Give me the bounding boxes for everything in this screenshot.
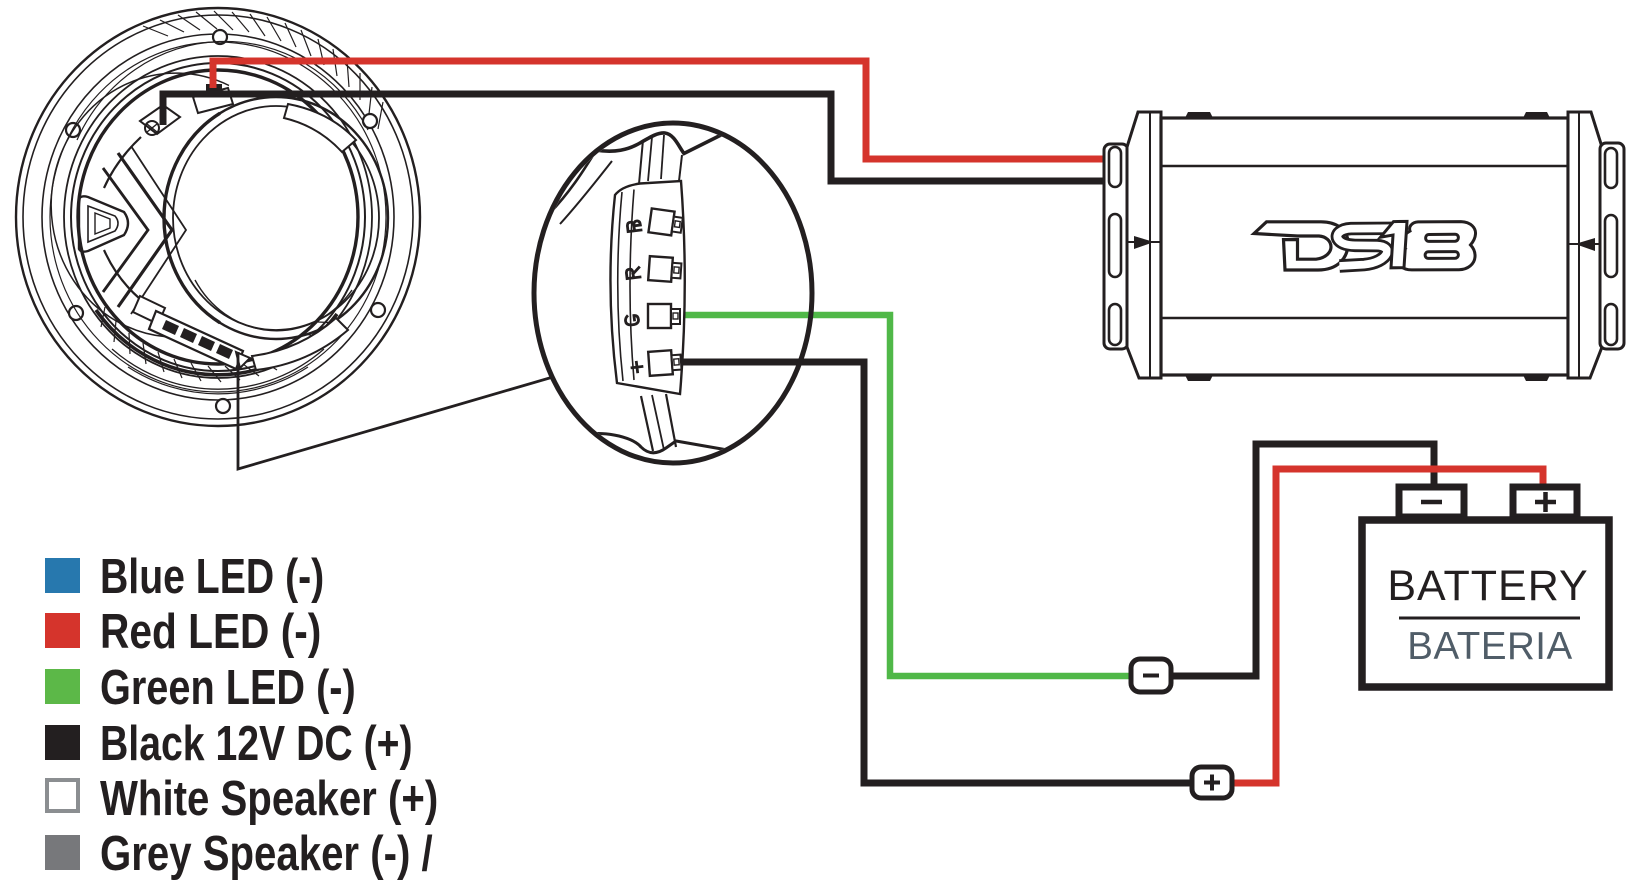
magnifier ellipse <box>534 123 812 463</box>
surround ring outer <box>50 42 386 392</box>
lug plus <box>648 350 682 376</box>
rim texture arc bottom inner <box>128 367 308 394</box>
bezel ring outer <box>64 56 372 378</box>
horn middle <box>88 206 118 242</box>
amp right flange slot 2 <box>1605 215 1617 277</box>
magnifier group <box>534 123 812 463</box>
battery plus sign <box>1535 492 1556 512</box>
basket rib upper left <box>104 137 141 188</box>
amp left flange slot 3 <box>1109 304 1121 345</box>
svg-text:Grey Speaker (-) /: Grey Speaker (-) / <box>100 826 433 881</box>
battery plus terminal <box>1513 487 1577 517</box>
lug B <box>648 208 683 236</box>
amp right cap inner line <box>1578 112 1580 378</box>
strip body <box>610 181 684 394</box>
battery minus sign <box>1421 500 1442 505</box>
cone inner shadow arc <box>195 280 352 331</box>
legend swatch green <box>45 669 80 704</box>
amp right flange slot 3 <box>1605 304 1617 345</box>
label G <box>625 315 639 326</box>
lug R <box>648 256 682 282</box>
amp bottom tab right <box>1523 375 1550 381</box>
screw hole upper right <box>363 114 377 128</box>
logo letter S light <box>1337 228 1392 266</box>
wire black from minus connector to battery minus <box>1168 444 1434 676</box>
amplifier <box>1104 112 1624 381</box>
amp top tab right <box>1523 112 1550 118</box>
screw hole top <box>213 30 227 44</box>
wire red speaker to amplifier <box>213 61 1104 159</box>
ribbon neck line 3 <box>661 135 664 179</box>
amp body <box>1161 118 1568 375</box>
basket chevron outer <box>118 153 172 307</box>
rim texture arc bottom outer <box>112 349 324 389</box>
amp left flange slot 1 <box>1109 147 1121 187</box>
amp left cap inner line <box>1149 112 1151 378</box>
strip side line left <box>618 192 623 381</box>
amp right flange slot 1 <box>1605 148 1617 188</box>
amp top tab left <box>1185 112 1213 118</box>
cone left rim thick arc <box>164 113 220 323</box>
DS18 logo <box>1254 221 1476 270</box>
battery minus terminal <box>1399 487 1464 517</box>
surround dark arc bottom <box>96 310 337 375</box>
amp right cap arrow <box>1575 238 1595 251</box>
speaker terminal tab 3 <box>198 336 215 351</box>
svg-text:BATTERY: BATTERY <box>1387 562 1588 610</box>
surround ridge arc top <box>77 41 368 140</box>
rim hatch ticks <box>143 11 383 129</box>
legend swatch grey <box>45 835 80 870</box>
ribbon tail bottom mid line <box>652 395 664 450</box>
terminal bracket left <box>133 296 165 324</box>
svg-text:White Speaker (+): White Speaker (+) <box>100 771 438 826</box>
bezel ring dark <box>78 70 358 364</box>
amp left cap arrow <box>1134 236 1154 249</box>
horn inner <box>95 213 110 234</box>
legend swatch black <box>45 725 80 760</box>
ribbon neck line 4 <box>679 155 682 181</box>
battery divider line <box>1399 617 1580 620</box>
cone opening circle outer <box>164 97 388 339</box>
ribbon tail bottom right line <box>666 394 676 447</box>
amp body top panel line <box>1161 165 1568 167</box>
legend swatch red <box>45 613 80 648</box>
amp left flange slot 2 <box>1109 214 1121 277</box>
logo letter S dark <box>1337 228 1392 266</box>
speaker outer rim ring <box>16 8 420 426</box>
inline plus connector <box>1192 767 1232 798</box>
speaker terminal tab 2 <box>180 328 197 343</box>
ribbon tail bottom left line <box>641 396 653 451</box>
clamp screw <box>145 121 159 135</box>
logo letter 8 <box>1397 222 1475 270</box>
amp right end cap <box>1568 112 1602 378</box>
screw hole lower left <box>69 306 83 320</box>
logo letter D <box>1254 222 1348 270</box>
screw hole upper left <box>66 123 80 137</box>
label plus <box>631 362 642 373</box>
speaker flange ring <box>42 34 394 400</box>
terminal strip on speaker <box>149 311 243 369</box>
screw hole bottom <box>216 399 230 413</box>
wire black 12V from plus terminal to plus connector <box>672 362 1194 783</box>
wire red from plus connector to battery plus <box>1231 469 1543 783</box>
bracket small top <box>193 88 233 113</box>
amp bottom tab left <box>1185 375 1213 381</box>
ribbon neck line 2 <box>648 137 652 181</box>
battery <box>1362 487 1609 687</box>
amp left cap seam <box>1127 241 1161 243</box>
wing shape top right <box>284 104 356 152</box>
amp right flange <box>1600 143 1624 349</box>
wire green LED from G terminal to minus connector <box>665 315 1131 676</box>
cone opening circle inner <box>173 106 379 330</box>
svg-text:Green LED (-): Green LED (-) <box>100 661 356 715</box>
speaker terminal tab 1 <box>162 320 179 335</box>
ribbon band upper left <box>549 149 597 214</box>
speaker line art <box>16 8 420 426</box>
lug G <box>648 304 680 328</box>
amp left end cap <box>1127 112 1161 378</box>
amp left flange <box>1104 144 1128 349</box>
logo letter 1 <box>1381 221 1408 267</box>
speaker terminal tab 4 <box>216 344 233 359</box>
ribbon tail bottom wave <box>580 434 739 453</box>
basket rib lower left <box>104 250 140 299</box>
amp body bottom panel line <box>1161 317 1568 319</box>
basket chevron inner <box>103 168 148 292</box>
svg-text:Blue LED (-): Blue LED (-) <box>100 550 324 604</box>
strip pointer tip <box>236 352 250 368</box>
svg-text:Red LED (-): Red LED (-) <box>100 603 321 658</box>
surround hatch ticks bottom <box>101 307 339 382</box>
ribbon band upper left inner <box>560 161 612 224</box>
callout line from speaker terminals to magnifier <box>238 352 553 469</box>
wire black speaker to amplifier <box>163 94 1104 181</box>
screw hole lower right <box>371 303 385 317</box>
wing shape bottom right <box>252 318 348 370</box>
amp right cap seam <box>1568 243 1602 245</box>
battery box <box>1362 520 1609 687</box>
clamp screw cross <box>147 124 157 132</box>
legend swatch blue <box>45 558 80 593</box>
svg-text:Black 12V DC (+): Black 12V DC (+) <box>100 717 413 771</box>
speaker outer rim inner ring <box>23 15 413 419</box>
svg-text:BATERIA: BATERIA <box>1407 625 1572 668</box>
basket chevron outer right <box>131 146 186 314</box>
label R <box>626 268 640 279</box>
inline minus connector <box>1131 659 1171 692</box>
ribbon crest top <box>595 133 722 154</box>
ribbon neck line 1 <box>639 140 643 184</box>
legend <box>45 550 438 881</box>
basket inner edge arc <box>51 73 229 336</box>
clamp bracket top <box>140 105 180 134</box>
bezel ring mid <box>71 63 365 371</box>
speaker plus tab <box>206 84 222 96</box>
horn outer <box>79 196 128 251</box>
label B <box>627 221 641 232</box>
legend swatch white <box>47 780 78 811</box>
strip face divider <box>630 190 634 381</box>
